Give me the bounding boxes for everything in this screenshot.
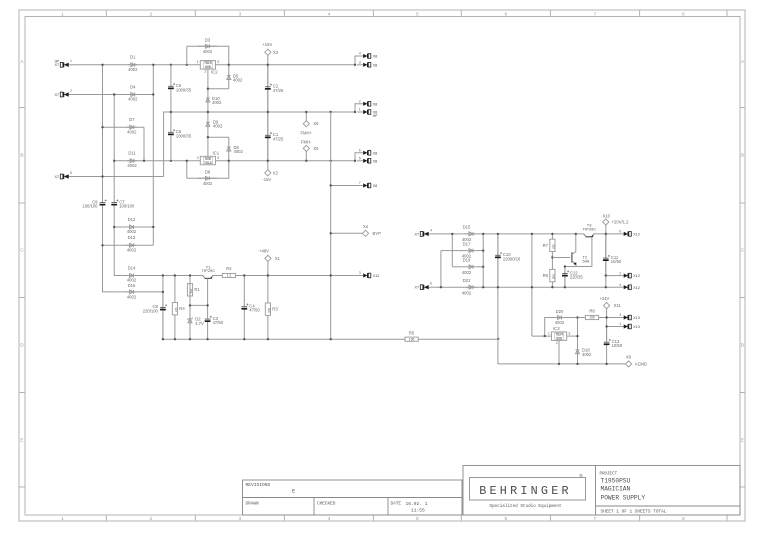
svg-text:C: C [741,248,745,254]
capacitor C6 [170,65,172,86]
svg-text:HF: HF [373,114,379,118]
junction W1/X3 [267,64,269,66]
junction W3/C1 [267,160,269,162]
vertical V2 from W2a [113,95,115,199]
svg-text:2: 2 [359,100,361,104]
diode D3 [198,45,217,47]
wire W3 row through IC1 [114,160,200,162]
svg-text:D20: D20 [556,309,564,314]
X8 pins 2/1 bracket [355,104,357,112]
diode D16 [127,291,137,293]
svg-text:IC2: IC2 [211,70,218,75]
junction bridge-r/D19 [482,266,484,268]
X8 pins 4/3 bracket [355,56,357,65]
svg-text:508: 508 [205,65,211,69]
junction W3/V330 [330,160,332,162]
svg-text:220/100: 220/100 [143,309,159,314]
power X10 [603,219,609,225]
junction W8/IC3gnd [558,363,560,365]
svg-text:D17: D17 [463,241,471,246]
D20 right to R8 node [567,317,578,319]
junction W5/C11 [605,233,607,235]
C10 vertical [497,234,499,287]
diode D12 [127,226,137,228]
svg-text:6: 6 [430,282,432,286]
svg-text:4002: 4002 [203,181,213,186]
power +24V X11 [604,303,610,309]
svg-text:D19: D19 [463,258,471,263]
connector X8 pin 6 [357,152,363,154]
junction W3/V2 [113,160,115,162]
svg-text:X3: X3 [273,50,279,55]
svg-text:X11: X11 [614,303,622,308]
svg-text:6: 6 [619,230,621,234]
wire W2 -raw rail [164,112,355,177]
svg-text:2: 2 [149,11,152,17]
vertical V1 lower [103,211,115,292]
svg-text:3: 3 [238,516,241,522]
capacitor C12 [564,267,566,274]
svg-text:D13: D13 [128,235,136,240]
regulator IC3 [552,332,567,341]
C11 vertical [605,234,607,276]
diode D13 [127,244,137,246]
svg-text:X12: X12 [633,286,640,290]
T2 collector [575,234,577,252]
svg-text:X12: X12 [633,274,640,278]
diode D14 [127,275,137,277]
junction W9/C4 [243,274,245,276]
svg-text:B: B [20,153,23,159]
svg-text:7: 7 [594,11,597,17]
svg-text:X7: X7 [414,232,419,236]
junction W7/V330 [330,338,332,340]
junction W8/C13 [605,363,607,365]
diode D10 [207,89,209,112]
svg-text:D15: D15 [463,225,471,230]
svg-text:6k8: 6k8 [267,308,271,313]
svg-text:X6: X6 [313,121,319,126]
regulator IC2 [200,61,215,70]
junction W9/V330 [330,274,332,276]
resistor R6 [551,258,553,270]
junction bracket A [354,64,356,66]
svg-text:3: 3 [568,332,570,336]
junction W5/C10 [497,233,499,235]
svg-text:15k: 15k [189,288,193,293]
svg-text:R8: R8 [589,308,595,313]
junction D7out/W3 [143,160,145,162]
junction W3/D6 [228,160,230,162]
junction D12row/V2 [113,226,115,228]
svg-text:CHECKED: CHECKED [317,502,336,507]
connector X7 pin 6 right [429,286,435,288]
junction W7/R4 [174,338,176,340]
diode D9 [207,112,209,137]
connector X13 pin 3 [618,317,624,319]
svg-text:3: 3 [238,11,241,17]
svg-text:4002: 4002 [462,270,472,275]
X4 branch [331,232,363,234]
X13 pin1 branch [607,326,618,328]
wire W5 after T3 [594,233,618,235]
svg-text:16.02. 1: 16.02. 1 [406,501,428,507]
V531 vertical [531,234,533,336]
svg-text:X8: X8 [373,151,378,155]
transistor T1 [203,276,205,279]
svg-text:D14: D14 [128,265,136,270]
X5 stub [305,152,307,161]
svg-text:D16: D16 [128,283,136,288]
IC3 gnd stub [558,340,560,364]
power +15V X3 [265,49,271,55]
connector X8 pin 7 [357,185,363,187]
svg-text:+15V: +15V [262,42,272,47]
D19 row right [476,266,483,268]
resistor R4 [174,276,176,303]
D8 loop left [186,161,188,179]
X2 to W3 [267,161,269,170]
junction W2a/V153 [152,93,154,95]
diode D1 [128,64,138,66]
svg-text:D3: D3 [205,38,211,43]
wire W8 analog ground [498,363,626,365]
svg-text:X4: X4 [363,224,369,229]
connector X7 pin 4 right [429,233,435,235]
svg-text:47/50: 47/50 [213,320,224,325]
svg-text:2: 2 [205,70,207,74]
V531 corner to IC3 [532,335,552,337]
capacitor C8 [162,292,164,307]
capacitor C5 [170,112,172,132]
junction D13row/V1 [101,244,103,246]
svg-text:X8: X8 [373,102,378,106]
capacitor C3 [207,305,209,319]
capacitor C4 [243,276,245,307]
svg-text:47/25: 47/25 [273,88,284,93]
capacitor C10 [497,234,499,255]
svg-text:100/100: 100/100 [82,204,98,209]
svg-text:7: 7 [594,516,597,522]
svg-text:X8: X8 [373,159,378,163]
junction W3/D8-loop-l [186,160,188,162]
svg-text:E: E [741,438,744,444]
junction D7row/V1 [101,126,103,128]
wire X7-5 row [75,176,164,178]
svg-text:1: 1 [197,60,199,64]
svg-text:D: D [741,343,745,349]
junction R8node [576,316,578,318]
svg-text:X12: X12 [373,274,380,278]
C8 vertical [162,276,164,340]
junction W6/D17v [440,286,442,288]
svg-text:1000/35: 1000/35 [176,87,192,92]
capacitor C7 [113,199,115,203]
svg-text:10/50: 10/50 [612,343,623,348]
svg-text:3: 3 [359,61,361,65]
svg-text:4002: 4002 [128,97,138,102]
svg-text:548: 548 [583,259,590,264]
junction W2/V330 [330,111,332,113]
junction W1/V153 [152,64,154,66]
svg-text:D1: D1 [130,55,136,60]
svg-text:4: 4 [619,283,621,287]
connector X8 pin 2 [357,103,363,105]
junction W5/bridge-r [482,233,484,235]
svg-text:4002: 4002 [233,78,243,83]
IC2 gnd to D5 [208,88,229,90]
svg-text:6: 6 [359,149,361,153]
junction IC2gnd [207,88,209,90]
svg-text:R7: R7 [543,243,549,248]
BEHRINGER logo [470,478,586,501]
svg-text:+20V/1.2: +20V/1.2 [612,220,630,225]
junction D9/D6 corner [207,136,209,138]
svg-text:BYP: BYP [373,231,382,236]
junction W5/V531 [531,233,533,235]
junction W9/C8 [162,274,164,276]
junction W6 end [605,286,607,288]
D20 loop left [545,318,552,337]
wire D7 row [103,126,145,128]
power AGND X9 [626,361,632,367]
svg-text:3: 3 [619,313,621,317]
svg-text:11:55: 11:55 [411,508,425,514]
svg-text:4002: 4002 [582,352,592,357]
D9 corner to D6 [208,136,229,138]
svg-text:X8: X8 [373,184,378,188]
junction C12 top [564,265,566,267]
svg-text:508: 508 [556,337,562,341]
wire D12 row [114,226,153,228]
junction W2/X6 [305,111,307,113]
power +48V X1 [265,255,271,261]
bridge right vertical [482,234,484,287]
svg-text:4.7V: 4.7V [195,321,204,326]
svg-text:D11: D11 [128,151,136,156]
junction W5/T2c [575,233,577,235]
svg-text:4002: 4002 [234,149,244,154]
zener D2 [189,305,191,339]
wire W7 ground return [163,338,405,340]
connector X13 pin 1 [618,326,624,328]
D17 row [441,250,466,252]
junction W11/C8 [162,291,164,293]
svg-text:POWER SUPPLY: POWER SUPPLY [601,495,646,502]
svg-text:R2: R2 [226,266,232,271]
svg-text:8: 8 [682,11,685,17]
svg-text:IC1: IC1 [213,151,220,156]
vertical V2 lower [114,211,120,276]
resistor R7 [551,234,553,239]
svg-text:2k2: 2k2 [551,244,555,249]
svg-text:2: 2 [149,516,152,522]
connector X12 pin 3 [357,275,363,277]
D8 loop bottom-right [187,161,229,179]
svg-text:1: 1 [70,59,72,63]
capacitor C11 [605,234,607,258]
junction W9/R4 [174,274,176,276]
title block outline [463,466,740,516]
svg-text:AGND: AGND [635,361,647,366]
D19 left vertical [451,234,453,267]
svg-text:7: 7 [359,181,361,185]
svg-text:3: 3 [217,60,219,64]
C12 vertical [564,267,566,288]
X8 pin7 branch [331,185,357,187]
wire W2a [75,94,154,96]
wire W6 raw- rail [435,286,618,288]
X10 stub [605,225,607,234]
junction W2/C2 [267,111,269,113]
svg-text:T1950PSU: T1950PSU [601,478,631,485]
diode D15 [466,233,476,235]
svg-text:REVISIONS: REVISIONS [246,482,271,488]
transistor T2 [571,252,573,262]
svg-text:4k7: 4k7 [174,307,178,312]
junction W3/X5 [305,160,307,162]
svg-text:+48V: +48V [259,249,269,254]
junction X75row/V1 [101,175,103,177]
junction W7 end [497,338,499,340]
wire W1 right of IC2 [216,64,356,66]
svg-text:X13: X13 [633,325,640,329]
IC1 pin1 stub [207,137,209,156]
junction W7/D2 [189,338,191,340]
svg-text:X12: X12 [633,233,640,237]
junction W9/X1 [267,274,269,276]
diode D8 [198,177,217,179]
T2 base wire [552,257,570,259]
long vertical V330 [330,112,332,339]
svg-text:B: B [741,153,744,159]
svg-text:FMH-: FMH- [301,139,312,144]
svg-text:1: 1 [359,108,361,112]
svg-text:X13: X13 [633,316,640,320]
svg-text:4002: 4002 [127,278,137,283]
junction D20loop/IC3in [544,335,546,337]
wire D13 row [103,244,154,246]
svg-text:C: C [20,248,24,254]
junction C3/T1base [206,304,208,306]
svg-text:1: 1 [619,322,621,326]
junction W9/R1 [189,274,191,276]
resistor R8 [578,317,586,319]
junction W2/D10 [207,111,209,113]
svg-text:DATE: DATE [391,502,402,507]
connector X7 pin 1 [69,64,75,66]
svg-text:4002: 4002 [127,247,137,252]
junction W7/C4 [243,338,245,340]
svg-text:1: 1 [61,11,64,17]
svg-text:4: 4 [328,11,331,17]
D17 row right [476,250,483,252]
svg-text:TIP29C: TIP29C [583,227,597,232]
svg-text:100: 100 [409,337,415,341]
junction R7/R6 [551,256,553,258]
diode D7 [127,126,137,128]
svg-text:D: D [20,343,24,349]
junction V330/pin7 [330,184,332,186]
diode D4 [128,94,138,96]
svg-text:PROJECT: PROJECT [600,473,618,477]
svg-text:1.2: 1.2 [227,274,232,278]
X3 to W1 [267,55,269,65]
capacitor C1 [267,112,269,135]
power X5 FMH- [303,145,309,151]
svg-text:1: 1 [61,516,64,522]
D3 loop left [186,46,188,65]
diode D20 [552,317,567,319]
svg-text:X8: X8 [373,63,378,67]
svg-text:4002: 4002 [212,100,222,105]
T3 base wire [576,237,592,266]
T2 emitter row [565,264,576,266]
junction R1/D2/C3 [189,304,191,306]
svg-text:R6: R6 [543,273,549,278]
junction D12row/V153 [152,226,154,228]
capacitor C13 [606,327,608,343]
IC2 ground stub [207,69,209,89]
svg-text:E: E [20,438,23,444]
svg-text:IC3: IC3 [553,326,560,331]
resistor R5 [404,338,406,340]
svg-text:6: 6 [504,516,507,522]
resistor R3 [267,276,269,304]
svg-text:220/35: 220/35 [570,275,583,280]
svg-text:D8: D8 [205,170,211,175]
junction W2a/V2 [113,93,115,95]
svg-text:Specialized Studio Equipment: Specialized Studio Equipment [489,504,562,509]
svg-text:100: 100 [589,316,595,320]
svg-text:4002: 4002 [128,67,138,72]
svg-text:4: 4 [430,228,432,232]
R1 bottom row [190,304,208,306]
junction W5/R7 [551,233,553,235]
X1 stub [267,262,269,276]
diode D6 [228,137,230,161]
junction W1/V1 [101,64,103,66]
junction bridge-r/D17 [482,249,484,251]
X8 pins 6/5 bracket [355,153,357,161]
resistor R1 [189,276,191,284]
junction W2/C6 [170,111,172,113]
junction W1/D3-loop [186,64,188,66]
connector X12 pin 6 [618,233,624,235]
svg-text:D7: D7 [129,117,135,122]
svg-text:100/100: 100/100 [119,204,135,209]
vertical D12-D13 join [152,227,154,245]
junction W1/C6 [170,64,172,66]
svg-text:R3: R3 [272,307,278,312]
C2 vertical [267,65,269,112]
connector X12 pin 4 [618,286,624,288]
transistor T3 [584,234,586,237]
X12 pin2 branch [606,275,618,277]
capacitor C2 [267,65,269,87]
regulator IC1 [200,156,215,165]
wire D16 row W11 [114,291,163,293]
svg-text:2: 2 [197,156,199,160]
junction IC3out/D18 [576,335,578,337]
svg-text:2: 2 [619,271,621,275]
svg-text:-15V: -15V [262,177,271,182]
svg-text:D4: D4 [130,84,136,89]
connector X7 pin 2 [69,94,75,96]
junction W6/R6 [551,286,553,288]
svg-text:4002: 4002 [462,290,472,295]
svg-text:D21: D21 [463,278,471,283]
